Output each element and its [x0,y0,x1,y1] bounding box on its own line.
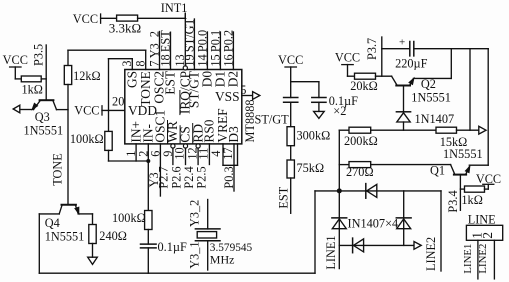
svg-text:EST: EST [163,71,178,95]
svg-text:1N5551: 1N5551 [24,124,64,138]
svg-text:Y3: Y3 [147,172,161,187]
svg-text:LINE2: LINE2 [477,244,489,274]
svg-text:240Ω: 240Ω [99,229,127,243]
svg-text:+: + [399,37,405,49]
svg-text:P0.3: P0.3 [222,166,236,188]
svg-text:P3.4: P3.4 [446,190,460,212]
svg-text:Q4: Q4 [45,216,60,230]
svg-text:EST: EST [158,30,172,52]
svg-text:18: 18 [158,54,172,66]
svg-text:2: 2 [480,232,495,239]
svg-text:Q2: Q2 [421,77,436,91]
svg-text:20kΩ: 20kΩ [350,79,378,93]
svg-text:270Ω: 270Ω [346,165,374,179]
svg-text:VCC: VCC [335,50,360,64]
svg-text:1N5551: 1N5551 [443,147,483,161]
svg-text:P0.0: P0.0 [195,30,209,52]
svg-text:D2: D2 [226,71,241,87]
svg-text:P2.5: P2.5 [195,166,209,188]
svg-text:LINE: LINE [468,212,496,226]
svg-text:TONE: TONE [50,153,64,186]
svg-text:MHz: MHz [210,252,235,266]
svg-text:VCC: VCC [73,12,98,26]
svg-text:300kΩ: 300kΩ [297,128,331,142]
svg-text:3.3kΩ: 3.3kΩ [109,21,141,36]
svg-text:5: 5 [240,83,246,97]
svg-text:VCC: VCC [278,53,303,67]
svg-text:16: 16 [221,54,235,66]
svg-text:P0.1: P0.1 [208,30,222,52]
svg-text:1N1407: 1N1407 [415,112,455,126]
svg-text:×2: ×2 [333,104,346,118]
svg-text:220µF: 220µF [395,57,428,71]
svg-text:P3.7: P3.7 [365,38,379,60]
svg-text:100kΩ: 100kΩ [112,211,146,225]
svg-text:D3: D3 [226,126,241,143]
svg-text:ST/GT: ST/GT [182,17,196,52]
svg-text:Q3: Q3 [35,110,50,124]
svg-text:VSS: VSS [215,89,240,104]
svg-text:3: 3 [120,60,134,66]
svg-text:ST/GT: ST/GT [255,112,290,126]
svg-text:15: 15 [208,54,222,66]
svg-text:0.1µF: 0.1µF [158,240,187,254]
svg-text:8: 8 [134,60,148,66]
svg-text:200kΩ: 200kΩ [344,134,378,148]
svg-text:1kΩ: 1kΩ [22,83,43,97]
svg-text:1kΩ: 1kΩ [461,193,482,207]
svg-text:LINE1: LINE1 [462,244,474,274]
svg-text:19: 19 [182,54,196,66]
svg-text:VDD: VDD [128,103,157,118]
svg-text:Y3_2: Y3_2 [187,200,201,227]
svg-text:EST: EST [276,186,290,208]
svg-text:75kΩ: 75kΩ [297,161,325,175]
svg-text:P0.2: P0.2 [221,30,235,52]
svg-text:14: 14 [195,54,209,66]
svg-text:LINE2: LINE2 [424,237,438,271]
svg-text:1N5551: 1N5551 [45,229,85,243]
svg-text:Y3_1: Y3_1 [187,241,201,268]
svg-text:100kΩ: 100kΩ [70,132,104,146]
svg-text:LINE1: LINE1 [324,235,338,269]
svg-text:IN1407×4: IN1407×4 [348,217,399,231]
svg-text:1N5551: 1N5551 [411,91,451,105]
svg-text:Q1: Q1 [430,164,445,178]
svg-text:TONE: TONE [138,71,153,106]
svg-text:12kΩ: 12kΩ [73,69,101,83]
svg-text:20: 20 [112,95,124,109]
svg-text:P3.5: P3.5 [32,44,46,66]
svg-text:INT1: INT1 [161,1,188,15]
svg-text:VCC: VCC [74,104,99,118]
svg-text:VCC: VCC [3,53,28,67]
